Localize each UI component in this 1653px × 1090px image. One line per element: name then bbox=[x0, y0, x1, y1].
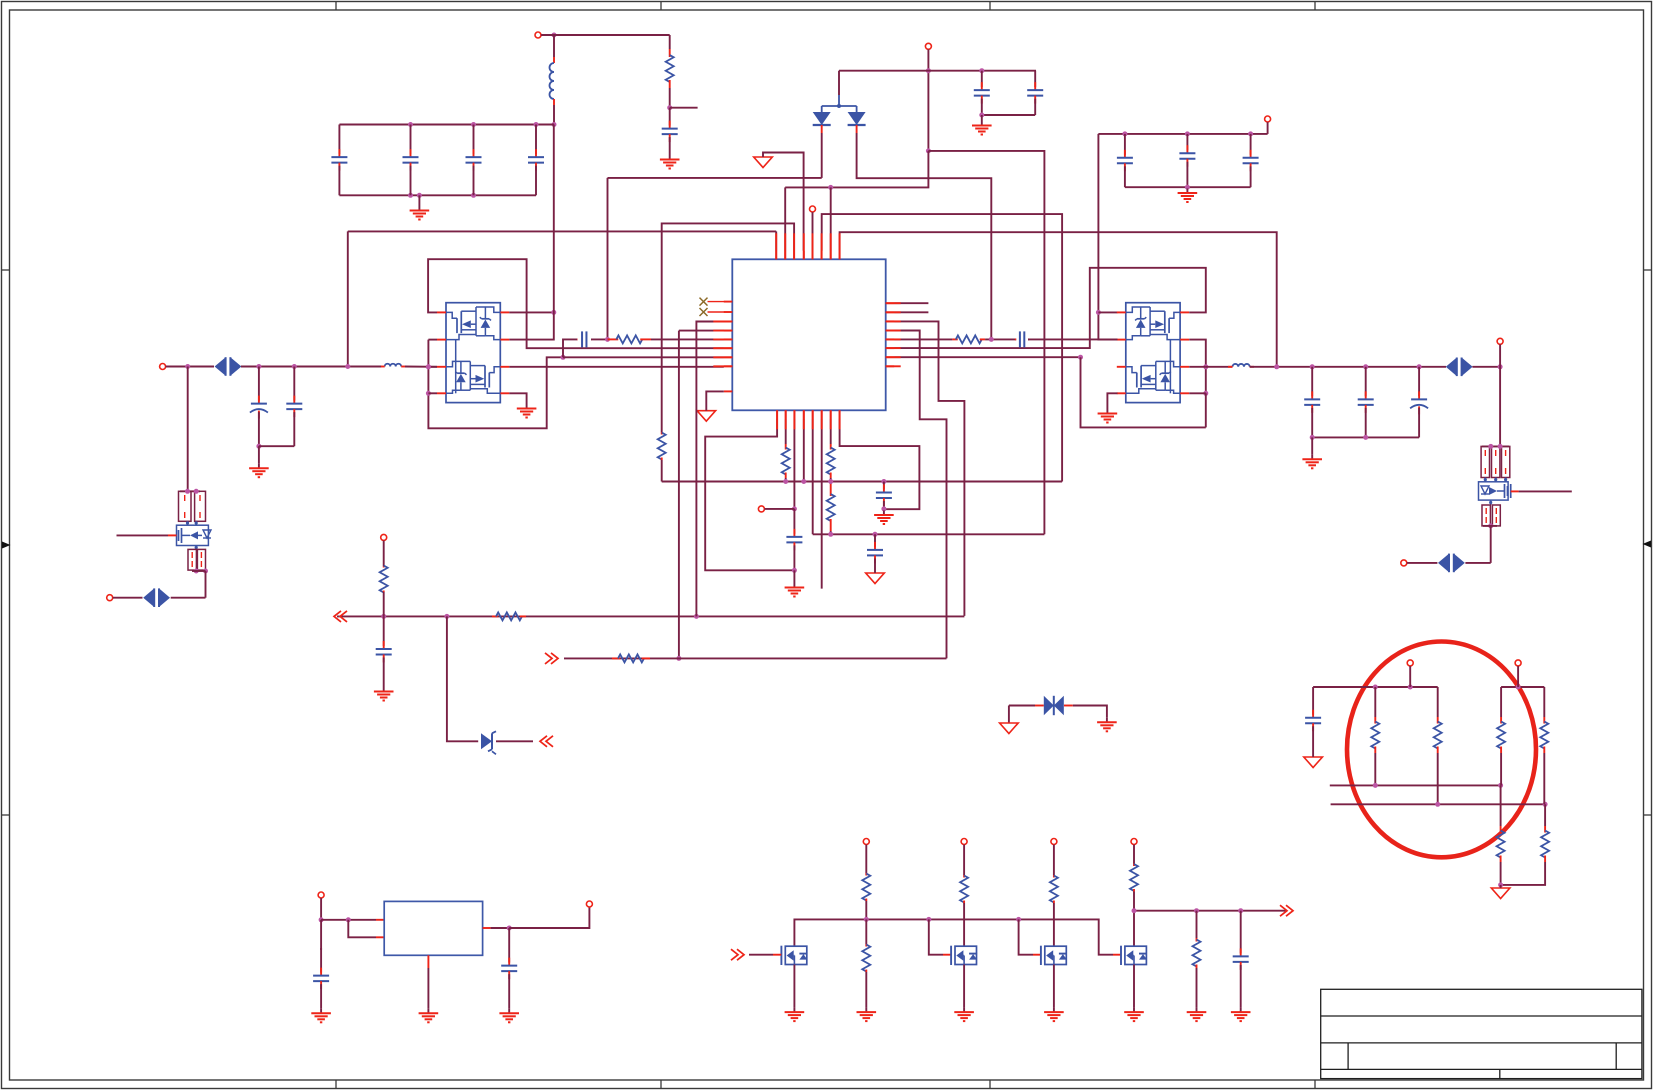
junction bbox=[444, 614, 449, 619]
wire bbox=[857, 133, 992, 339]
junction bbox=[471, 122, 476, 127]
wire bbox=[981, 115, 983, 121]
TVS diode D6 bbox=[1044, 696, 1064, 715]
junction bbox=[828, 532, 833, 537]
wire bbox=[483, 927, 510, 929]
wire bbox=[591, 338, 608, 340]
wire bbox=[509, 393, 526, 404]
junction bbox=[667, 105, 672, 110]
wire bbox=[166, 366, 214, 368]
wire bbox=[669, 35, 671, 49]
wire bbox=[1186, 178, 1188, 187]
junction bbox=[552, 122, 557, 127]
no-connect bbox=[700, 298, 708, 306]
wire bbox=[383, 541, 385, 567]
ground bbox=[1097, 718, 1117, 732]
wire bbox=[1511, 490, 1572, 492]
wire bbox=[1374, 687, 1376, 717]
capacitor C16 bbox=[867, 534, 883, 571]
wire bbox=[1483, 525, 1497, 527]
wire bbox=[241, 366, 381, 368]
capacitor C18 bbox=[376, 616, 392, 687]
wire bbox=[1008, 706, 1010, 724]
wire bbox=[321, 919, 376, 921]
junction bbox=[801, 479, 806, 484]
wire bbox=[1189, 392, 1206, 394]
junction bbox=[1498, 783, 1503, 788]
mosfet Q7 bbox=[1041, 946, 1067, 965]
wire bbox=[894, 338, 952, 340]
wire bbox=[1489, 500, 1492, 505]
ground flag bbox=[1491, 888, 1510, 899]
wire bbox=[785, 478, 787, 482]
wire bbox=[1053, 903, 1055, 946]
wire bbox=[428, 366, 437, 368]
wire bbox=[1019, 919, 1033, 954]
junction bbox=[319, 917, 324, 922]
net arrow out bbox=[545, 653, 558, 664]
resistor R6 bbox=[782, 444, 790, 478]
wire VIN rail bbox=[339, 124, 554, 126]
wire bbox=[822, 104, 857, 112]
wire B8 gnd loop bbox=[840, 419, 920, 509]
wire bbox=[839, 70, 1036, 72]
wire bbox=[1009, 705, 1035, 707]
junction bbox=[552, 33, 557, 38]
ground bbox=[517, 404, 537, 418]
resistor R21 bbox=[862, 873, 870, 901]
wire LS gate right bbox=[1081, 357, 1206, 427]
wire bbox=[428, 392, 437, 394]
junction bbox=[828, 185, 833, 190]
ground flag D6 bbox=[1000, 723, 1019, 734]
junction bbox=[1498, 882, 1503, 887]
junction bbox=[1408, 685, 1413, 690]
resistor R8 bbox=[827, 484, 835, 531]
resistor pack R5 bbox=[188, 549, 206, 570]
wire bbox=[669, 88, 671, 108]
net arrow in bbox=[334, 611, 347, 622]
wire sense bus bbox=[1134, 910, 1287, 912]
ground bbox=[374, 687, 394, 701]
junction bbox=[1310, 364, 1315, 369]
wire bbox=[541, 34, 670, 36]
resistor pack R14 bbox=[1482, 505, 1500, 526]
resistor R18 bbox=[1497, 826, 1505, 862]
pin P11 bbox=[863, 839, 869, 845]
junction bbox=[185, 364, 190, 369]
wire bbox=[339, 194, 536, 196]
capacitor C2 bbox=[331, 125, 347, 196]
wire SW1 to ic bbox=[509, 366, 724, 368]
wire bbox=[509, 907, 589, 928]
wire bbox=[608, 177, 822, 179]
wire bbox=[1465, 562, 1490, 564]
wire bbox=[607, 178, 609, 340]
wire bbox=[1472, 366, 1500, 368]
ground bbox=[1098, 409, 1118, 423]
pin P9 bbox=[1407, 660, 1413, 666]
resistor R10 bbox=[612, 654, 650, 662]
wire bbox=[865, 919, 867, 944]
capacitor C8 bbox=[1117, 134, 1133, 187]
resistor R20 bbox=[1541, 826, 1549, 862]
wire bbox=[180, 490, 200, 492]
wire bbox=[195, 546, 198, 550]
capacitor C5 bbox=[528, 125, 544, 196]
pin P6 bbox=[381, 534, 387, 540]
capacitor C17 bbox=[1015, 331, 1029, 347]
net arrow sense bbox=[1280, 905, 1293, 916]
wire bbox=[749, 954, 781, 956]
resistor R11 bbox=[952, 335, 985, 343]
wire bbox=[1053, 845, 1055, 875]
wire bbox=[784, 187, 786, 250]
wire bbox=[1133, 845, 1135, 864]
wire bbox=[982, 114, 1035, 116]
junction bbox=[1096, 310, 1101, 315]
junction bbox=[203, 569, 208, 574]
wire bbox=[1501, 862, 1546, 885]
wire bbox=[830, 419, 832, 444]
wire stub bbox=[894, 302, 928, 304]
junction bbox=[1363, 435, 1368, 440]
wire bbox=[1437, 687, 1439, 717]
wire bbox=[509, 311, 554, 313]
capacitor C24 bbox=[313, 948, 329, 1009]
resistor R15 bbox=[1371, 717, 1379, 753]
ground flag bbox=[754, 157, 773, 168]
junction bbox=[345, 364, 350, 369]
wire bbox=[830, 531, 832, 534]
wire bbox=[1312, 436, 1419, 438]
wire bbox=[1311, 437, 1313, 454]
wire rail 481 bbox=[662, 481, 1062, 483]
pin P4 bbox=[160, 364, 166, 370]
junction bbox=[1498, 364, 1503, 369]
capacitor C7 bbox=[1027, 71, 1043, 115]
pin TP1 bbox=[810, 206, 816, 212]
wire rail B bbox=[1501, 686, 1544, 688]
resistor R19 bbox=[1540, 717, 1548, 753]
pin P16 bbox=[586, 901, 592, 907]
wire bbox=[1206, 366, 1254, 368]
junction bbox=[256, 444, 261, 449]
junction bbox=[1185, 185, 1190, 190]
junction bbox=[292, 364, 297, 369]
pin P15 bbox=[318, 892, 324, 898]
ground bbox=[419, 1009, 439, 1023]
resistor R25 bbox=[862, 944, 870, 972]
junction bbox=[471, 193, 476, 198]
junction bbox=[426, 391, 431, 396]
wire bbox=[1113, 954, 1121, 956]
resistor R3 bbox=[608, 335, 652, 343]
wire bbox=[376, 919, 384, 921]
wire bbox=[1500, 753, 1502, 785]
wire HS gate left bbox=[428, 259, 724, 348]
junction bbox=[1488, 444, 1493, 449]
ic U1 pin stubs bbox=[724, 251, 894, 419]
wire bbox=[563, 339, 578, 357]
junction bbox=[792, 506, 797, 511]
ground bbox=[1231, 1008, 1251, 1022]
wire bbox=[1500, 862, 1502, 885]
wire bbox=[838, 71, 840, 106]
junction bbox=[408, 193, 413, 198]
ground bbox=[972, 121, 992, 135]
zener diode D5 bbox=[481, 731, 496, 754]
wire bbox=[679, 330, 724, 332]
wire stub bbox=[894, 311, 928, 313]
ground bbox=[410, 206, 430, 220]
wire bbox=[553, 35, 555, 63]
wire bbox=[1107, 393, 1117, 409]
wire bbox=[1490, 526, 1492, 563]
ground bbox=[499, 1009, 519, 1023]
ground bbox=[1178, 189, 1198, 203]
wire bbox=[1500, 687, 1502, 717]
wire B1 loop bbox=[705, 419, 794, 571]
wire SW2 node bbox=[1189, 340, 1206, 394]
wire bbox=[1196, 968, 1198, 1008]
junction bbox=[417, 193, 422, 198]
wire rail 616 bbox=[337, 615, 964, 617]
junction bbox=[194, 489, 199, 494]
wire bbox=[1543, 753, 1545, 804]
wire bbox=[963, 965, 965, 1008]
junction bbox=[828, 479, 833, 484]
ground bbox=[785, 583, 805, 597]
wire to zener bbox=[447, 616, 478, 741]
junction bbox=[783, 479, 788, 484]
wire bbox=[1133, 965, 1135, 1008]
diode D2 bbox=[848, 112, 866, 125]
mosfet Q3 bbox=[177, 525, 212, 545]
wire bbox=[259, 445, 294, 447]
wire bbox=[763, 153, 804, 251]
wire bbox=[775, 231, 777, 250]
junction bbox=[792, 568, 797, 573]
junction bbox=[694, 614, 699, 619]
highlight ellipse bbox=[1347, 642, 1536, 858]
wire bbox=[1098, 133, 1267, 135]
wire bbox=[985, 338, 1016, 340]
net arrow zener bbox=[540, 736, 553, 747]
junction bbox=[1016, 917, 1021, 922]
resistor R7 bbox=[827, 444, 835, 478]
resistor pack R13 bbox=[1481, 446, 1510, 477]
ic U1 body bbox=[732, 259, 885, 410]
junction bbox=[1132, 908, 1137, 913]
TVS diode D4 bbox=[143, 588, 170, 607]
wire pinL4 bbox=[678, 331, 680, 659]
wire VIN2 bbox=[1098, 134, 1117, 340]
wire bbox=[821, 419, 823, 589]
wire bbox=[785, 151, 928, 188]
wire bbox=[496, 740, 533, 742]
ground bbox=[785, 1008, 805, 1022]
wire pin6 top bbox=[822, 214, 1062, 481]
capacitor C14 bbox=[786, 509, 802, 570]
wire bbox=[793, 419, 795, 509]
wire bbox=[187, 367, 189, 492]
junction bbox=[561, 355, 566, 360]
pin P10 bbox=[1515, 660, 1521, 666]
wire bbox=[929, 919, 943, 954]
wire bbox=[1205, 393, 1207, 427]
junction bbox=[1203, 364, 1208, 369]
junction bbox=[185, 489, 190, 494]
wire bbox=[1035, 705, 1073, 707]
wire bbox=[427, 955, 429, 1009]
wire bbox=[1312, 754, 1314, 757]
pin P14 bbox=[1131, 839, 1137, 845]
junction bbox=[426, 364, 431, 369]
wire bbox=[865, 972, 867, 1008]
wire bbox=[821, 125, 823, 178]
junction bbox=[534, 122, 539, 127]
wire bbox=[1053, 965, 1055, 1008]
junction bbox=[1122, 131, 1127, 136]
wire rail A bbox=[1313, 686, 1438, 688]
junction bbox=[408, 122, 413, 127]
junction bbox=[1274, 364, 1279, 369]
ic U1 nc stubs bbox=[708, 302, 725, 312]
mosfet Q6 bbox=[951, 946, 977, 965]
wire bbox=[171, 597, 206, 599]
ground bbox=[311, 1009, 331, 1023]
wire bbox=[830, 187, 832, 250]
pin P12 bbox=[961, 839, 967, 845]
junction bbox=[926, 917, 931, 922]
wire bbox=[830, 478, 832, 484]
wire bbox=[1500, 885, 1502, 888]
ground bbox=[1124, 1008, 1144, 1022]
resistor R1 bbox=[666, 49, 674, 88]
junction bbox=[881, 506, 886, 511]
wire bbox=[553, 99, 555, 125]
wire bbox=[1098, 311, 1117, 313]
junction bbox=[926, 68, 931, 73]
resistor R12 bbox=[380, 566, 388, 593]
wire bbox=[1500, 785, 1502, 826]
junction bbox=[605, 337, 610, 342]
wire bbox=[1409, 666, 1411, 687]
junction bbox=[346, 917, 351, 922]
wire bbox=[1407, 562, 1438, 564]
ground bbox=[660, 155, 680, 169]
wire bbox=[1125, 186, 1251, 188]
wire gate bus bbox=[794, 919, 1113, 954]
wire pinR4 path bbox=[894, 331, 946, 659]
junction bbox=[1203, 391, 1208, 396]
wire bbox=[1189, 366, 1206, 368]
TVS diode D8 bbox=[1438, 554, 1465, 573]
title block bbox=[1321, 989, 1642, 1078]
wire bbox=[963, 845, 965, 875]
wire rail 658 bbox=[564, 657, 947, 659]
capacitor C6 bbox=[974, 71, 990, 115]
pin P13 bbox=[1051, 839, 1057, 845]
mosfet Q5 bbox=[781, 946, 807, 965]
wire bbox=[1517, 666, 1519, 687]
wire bbox=[1196, 911, 1198, 938]
capacitor C9 bbox=[1179, 134, 1195, 178]
wire bbox=[186, 521, 198, 525]
border left arrow bbox=[2, 542, 11, 549]
ground bbox=[874, 511, 894, 525]
pin P2 bbox=[925, 43, 931, 49]
resistor R17 bbox=[1497, 717, 1505, 753]
capacitor C12 bbox=[250, 367, 268, 447]
capacitor C3 bbox=[403, 125, 419, 196]
wire bbox=[1543, 687, 1545, 717]
ground bbox=[1187, 1008, 1207, 1022]
resistor R23 bbox=[1050, 875, 1058, 903]
wire bbox=[168, 534, 177, 536]
wire gate Q3 bbox=[117, 534, 169, 536]
wire bbox=[320, 920, 322, 950]
wire bbox=[670, 107, 698, 109]
junction bbox=[194, 569, 199, 574]
pin P8 bbox=[1401, 560, 1407, 566]
wire bbox=[874, 571, 876, 573]
regulator U2 bbox=[384, 901, 482, 955]
wire LS gate left bbox=[428, 340, 563, 429]
wire pinR3 path bbox=[894, 321, 964, 616]
capacitor C20 bbox=[1358, 367, 1374, 438]
wire bbox=[258, 446, 260, 464]
wire bbox=[793, 570, 795, 583]
junction bbox=[1310, 435, 1315, 440]
capacitor C25 bbox=[501, 928, 517, 1009]
wire rail 534 bbox=[813, 533, 1045, 535]
capacitor C10 bbox=[1243, 134, 1259, 187]
junction bbox=[1363, 364, 1368, 369]
capacitor C23 bbox=[1233, 911, 1249, 1008]
resistor R2 bbox=[658, 432, 666, 460]
wire bbox=[1267, 122, 1269, 134]
pin P1 bbox=[535, 32, 541, 38]
junction bbox=[1435, 802, 1440, 807]
junction bbox=[1417, 364, 1422, 369]
wire bbox=[383, 592, 385, 616]
inductor L3 bbox=[1233, 364, 1250, 367]
wire bbox=[661, 460, 663, 482]
wire bbox=[320, 898, 322, 920]
wire bbox=[563, 356, 724, 358]
wire bbox=[706, 391, 724, 410]
border right arrow bbox=[1643, 541, 1652, 548]
wire bbox=[1250, 366, 1446, 368]
TVS diode D3 bbox=[215, 357, 242, 376]
ic U1 pin leads bbox=[713, 233, 900, 429]
wire bbox=[865, 845, 867, 873]
wire bbox=[1437, 753, 1439, 804]
wire bbox=[785, 419, 787, 444]
wire bbox=[192, 570, 206, 572]
ground flag U1 bbox=[697, 411, 716, 422]
junction bbox=[381, 614, 386, 619]
wire bbox=[803, 419, 805, 482]
ground bbox=[954, 1008, 974, 1022]
wire bbox=[113, 597, 143, 599]
junction bbox=[1078, 355, 1083, 360]
dual mosfet Q1 bbox=[437, 303, 509, 403]
wire bbox=[418, 195, 420, 206]
junction bbox=[1488, 523, 1493, 528]
